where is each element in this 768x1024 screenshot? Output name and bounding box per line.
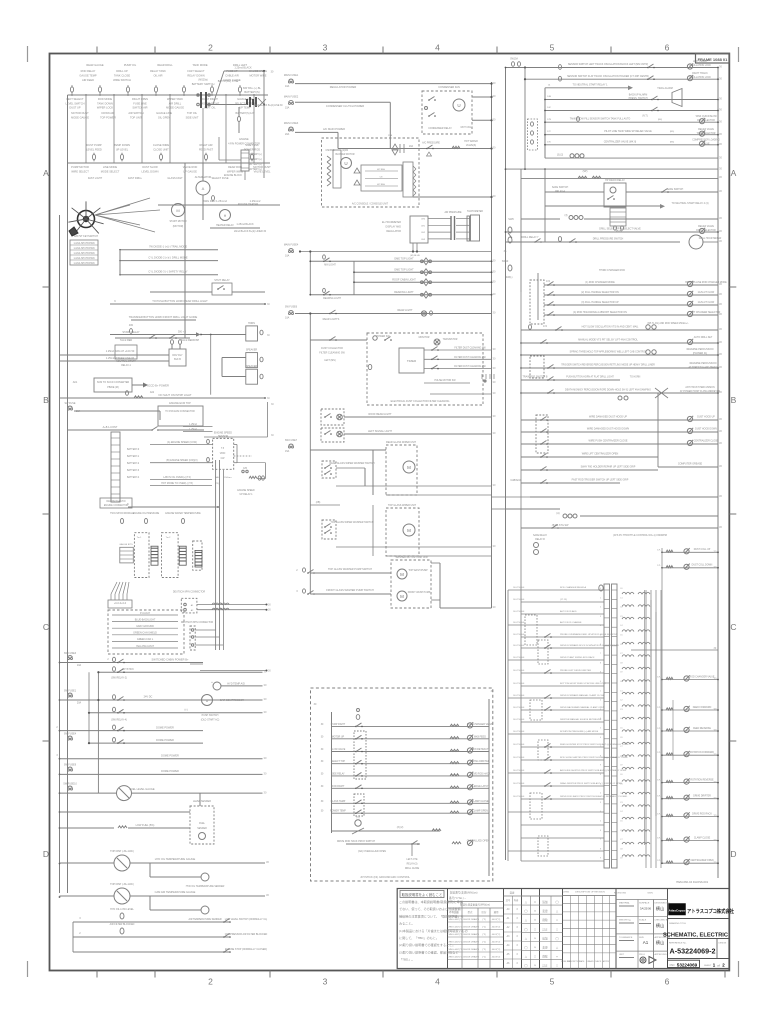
svg-text:MAIN FUSE3: MAIN FUSE3 (284, 122, 299, 125)
svg-text:M: M (176, 208, 179, 213)
svg-text:17C: 17C (547, 131, 551, 133)
svg-text:□: □ (534, 927, 536, 931)
svg-text:(OLD START AC): (OLD START AC) (201, 719, 220, 722)
svg-text:SLEDGE LATCH: SLEDGE LATCH (471, 785, 489, 788)
svg-text:PULSE MOTOR SW: PULSE MOTOR SW (434, 380, 456, 382)
svg-text:BATTERY-1: BATTERY-1 (127, 455, 140, 458)
svg-text:TOP UNIT: TOP UNIT (130, 115, 142, 119)
svg-text:SCALE: SCALE (639, 919, 647, 922)
svg-text:DEUTSCHE: DEUTSCHE (513, 731, 525, 733)
svg-text:LEFT (MN): LEFT (MN) (324, 360, 336, 362)
svg-text:3: 3 (323, 43, 328, 53)
svg-text:CHNG 4407(*2): CHNG 4407(*2) (447, 919, 463, 921)
svg-text:10A: 10A (77, 664, 82, 667)
svg-text:TANK QUICK/SLOW: TANK QUICK/SLOW (695, 115, 717, 118)
svg-text:(4) ROD HOLD/WAVE A ABSORT SEL: (4) ROD HOLD/WAVE A ABSORT SELECTOR ON (573, 311, 627, 314)
svg-text:DRAG DRIFTER PROX SWITCH BLAST: DRAG DRIFTER PROX SWITCH BLAST-(-) NORMA… (560, 782, 622, 785)
svg-text:HYD OIL TEMPERATURE SENDER: HYD OIL TEMPERATURE SENDER (186, 885, 225, 888)
svg-text:AIR FEED: AIR FEED (82, 78, 94, 82)
svg-text:4: 4 (435, 977, 440, 987)
svg-text:WIPER TANK: WIPER TANK (167, 97, 183, 101)
svg-text:(N6): (N6) (670, 141, 675, 143)
svg-text:SENSOR: SENSOR (218, 435, 228, 438)
svg-text:READING LIGHT: READING LIGHT (323, 297, 341, 300)
svg-text:TOP OIL: TOP OIL (187, 111, 198, 115)
svg-text:C: C (730, 622, 736, 632)
svg-text:CHNG: CHNG (563, 892, 570, 894)
svg-text:APPROVED: APPROVED (655, 953, 668, 956)
svg-text:BATTERY(S) 12V: BATTERY(S) 12V (236, 112, 255, 115)
svg-text:RIGHT AIR: RIGHT AIR (200, 143, 213, 147)
svg-text:5: 5 (550, 43, 555, 53)
svg-text:3: 3 (323, 977, 328, 987)
svg-text:4 P/N POWER CONNECTOR: 4 P/N POWER CONNECTOR (228, 143, 260, 146)
svg-text:REAR DRILL: REAR DRILL (157, 63, 173, 67)
svg-text:CHNG 4407(*2): CHNG 4407(*2) (447, 949, 463, 951)
svg-text:BATTERY(+): BATTERY(+) (248, 168, 261, 171)
svg-text:ENGINE WATER TEMPERATURE: ENGINE WATER TEMPERATURE (165, 512, 201, 515)
svg-text:POWER ROD: POWER ROD (244, 147, 260, 151)
svg-text:CYL DIODE-2 (+)(-) DRILL MODE: CYL DIODE-2 (+)(-) DRILL MODE (148, 256, 187, 260)
svg-text:TANK CLOSE: TANK CLOSE (114, 74, 131, 78)
svg-text:変更: 変更 (542, 946, 548, 950)
svg-text:REVERSE PERCUSSION: REVERSE PERCUSSION (687, 349, 714, 351)
svg-text:TRAVERSE SWITCH B: TRAVERSE SWITCH B (522, 376, 547, 379)
svg-text:CABLE AIR: CABLE AIR (225, 74, 239, 78)
svg-text:Tw-2: Tw-2 (166, 537, 172, 539)
svg-text:横山: 横山 (656, 939, 664, 946)
svg-text:MAIN FUSE2: MAIN FUSE2 (284, 95, 299, 98)
svg-text:DEUTSCHE: DEUTSCHE (513, 657, 525, 659)
svg-text:DRILL UP: DRILL UP (116, 69, 128, 73)
svg-text:10A: 10A (285, 85, 290, 88)
svg-text:Tw-1: Tw-1 (137, 537, 143, 539)
svg-text:SIZE: SIZE (639, 937, 644, 939)
svg-text:DME TOP LIGHT: DME TOP LIGHT (394, 258, 414, 261)
svg-text:RELAY-R: RELAY-R (535, 538, 545, 541)
svg-text:4407(*2): 4407(*2) (492, 934, 501, 936)
svg-text:6: 6 (665, 43, 670, 53)
svg-text:500 + 5: 500 + 5 (178, 331, 187, 334)
svg-text:TWO-SP/ON MODULE: TWO-SP/ON MODULE (110, 513, 134, 515)
svg-text:SWAY RIG HOLDER REPAIR UP LEFT: SWAY RIG HOLDER REPAIR UP LEFT SIDE GRIP (581, 466, 636, 469)
svg-text:×: × (534, 964, 536, 968)
svg-text:DM419 DRAWN: DM419 DRAWN (463, 941, 479, 944)
svg-text:TOP DISP (-30+110C): TOP DISP (-30+110C) (110, 883, 134, 886)
svg-text:AT 3NA: AT 3NA (377, 183, 385, 186)
svg-text:(SW RELAY-4): (SW RELAY-4) (111, 719, 127, 722)
svg-text:DEUTSCHE: DEUTSCHE (513, 599, 525, 601)
svg-text:53224069: 53224069 (677, 962, 698, 967)
svg-text:みること。: みること。 (399, 921, 414, 926)
svg-text:BOTTOM HOIST FEED UP AT RIG LI: BOTTOM HOIST FEED UP AT RIG LINE STOP (560, 682, 607, 685)
svg-text:P-CAN-H: P-CAN-H (140, 612, 150, 615)
svg-text:RELAY-4: RELAY-4 (555, 190, 565, 193)
svg-text:of: of (717, 963, 719, 967)
svg-text:◯: ◯ (524, 964, 528, 968)
svg-text:COMPRESSOR LOADING: COMPRESSOR LOADING (692, 139, 720, 142)
svg-text:OIL AIR: OIL AIR (154, 74, 163, 78)
svg-text:U: U (457, 103, 460, 108)
svg-text:+0-0-0+0-0: +0-0-0+0-0 (114, 602, 127, 605)
svg-text:10A: 10A (285, 255, 290, 258)
svg-text:DRIFTER MANUAL SLEEVE RETRIEVE: DRIFTER MANUAL SLEEVE RETRIEVER (560, 718, 602, 721)
svg-text:DRILL PRESSURE SWITCH: DRILL PRESSURE SWITCH (593, 238, 624, 241)
svg-text:SENSOR SWITCH LEFT TRACK OSCIL: SENSOR SWITCH LEFT TRACK OSCILLATION BLO… (568, 63, 648, 66)
svg-text:RELAY DOWN: RELAY DOWN (187, 74, 204, 78)
svg-text:SW9: SW9 (508, 218, 514, 221)
svg-text:削除: 削除 (542, 918, 548, 922)
svg-text:SW(L): SW(L) (506, 276, 513, 279)
svg-text:CABIN/AC: CABIN/AC (510, 479, 522, 482)
svg-text:PROBE LEFT DRIVE DRIFTER: PROBE LEFT DRIVE DRIFTER (560, 670, 591, 672)
svg-text:CAM AIR TEMPERATURE GAUGE: CAM AIR TEMPERATURE GAUGE (155, 890, 196, 894)
svg-text:4407(*2): 4407(*2) (492, 942, 501, 944)
svg-text:ENGINE SPEED: ENGINE SPEED (237, 490, 255, 492)
svg-text:1.25md: 1.25md (189, 429, 197, 431)
svg-text:(2)0M: (2)0M (342, 150, 348, 152)
svg-text:ITEM-660-04 DHOS6-001: ITEM-660-04 DHOS6-001 (676, 880, 709, 884)
svg-text:DEUTSCHE: DEUTSCHE (513, 587, 525, 589)
svg-text:READING LIGHT: READING LIGHT (394, 291, 414, 294)
svg-text:CHECKED BY: CHECKED BY (655, 920, 670, 922)
svg-text:ROD CHANGER RELAY-A: ROD CHANGER RELAY-A (560, 586, 587, 589)
svg-text:TO HORN: TO HORN (630, 377, 641, 379)
svg-text:製造仕様変更番号(MN)(os): 製造仕様変更番号(MN)(os) (460, 903, 490, 907)
svg-text:GAUGE TEMP: GAUGE TEMP (79, 74, 97, 78)
svg-text:TANK MODE: TANK MODE (192, 63, 207, 67)
svg-text:DEUTSCH 40-P/N: DEUTSCH 40-P/N (107, 501, 126, 503)
svg-text:SW FUSE3: SW FUSE3 (64, 652, 77, 655)
svg-text:DUST HOOD UP: DUST HOOD UP (697, 417, 715, 419)
svg-text:取扱説明書をよく読むこと: 取扱説明書をよく読むこと (402, 892, 443, 897)
svg-text:(M5 TL R1) AND ROD SPEED 250km: (M5 TL R1) AND ROD SPEED 250km+/- (647, 322, 689, 325)
svg-text:TO P4N ECM CONNECTOR: TO P4N ECM CONNECTOR (165, 411, 195, 413)
svg-text:FRONT WASH PUMP: FRONT WASH PUMP (408, 591, 431, 594)
svg-text:HOT SLOW OSCILLATION VTS IN AN: HOT SLOW OSCILLATION VTS IN AND CENT. MA… (582, 326, 639, 329)
svg-text:適用: 適用 (494, 910, 499, 914)
svg-text:FILTER DUST CLEANING 250: FILTER DUST CLEANING 250 (454, 356, 486, 359)
svg-text:+: + (211, 680, 213, 684)
svg-text:A: A (731, 168, 737, 178)
svg-text:BATTERY SWITCH: BATTERY SWITCH (192, 82, 215, 86)
svg-text:WASHER MOTOR TANK UNIT: WASHER MOTOR TANK UNIT (396, 556, 430, 559)
svg-text:SW FUSE4: SW FUSE4 (64, 733, 77, 736)
svg-text:追加: 追加 (542, 936, 548, 940)
svg-text:AWG RED 1.25mm2: AWG RED 1.25mm2 (203, 199, 227, 203)
svg-text:FUSE LINE: FUSE LINE (133, 101, 147, 105)
svg-text:MAIN FUSE4: MAIN FUSE4 (284, 244, 299, 247)
svg-text:DOME POWER: DOME POWER (156, 739, 174, 742)
svg-text:ENGINE BLOCK: ENGINE BLOCK (224, 174, 242, 177)
svg-text:RELIEF VALVE: RELIEF VALVE (698, 128, 714, 131)
svg-text:LEFT SIGNAL LIGHT: LEFT SIGNAL LIGHT (368, 430, 392, 433)
svg-text:PROJ: PROJ (639, 954, 645, 956)
svg-text:LEVEL SENDER: LEVEL SENDER (193, 800, 211, 803)
svg-text:15A: 15A (285, 106, 290, 109)
svg-text:×: × (556, 918, 558, 922)
svg-text:1.25md: 1.25md (189, 424, 197, 426)
svg-text:VALVE: VALVE (702, 143, 710, 146)
svg-text:HYD OIL LOW LEVEL: HYD OIL LOW LEVEL (110, 908, 134, 911)
svg-text:DUST UP: DUST UP (69, 106, 81, 110)
svg-text:FILTER CLEANING SW: FILTER CLEANING SW (319, 352, 345, 355)
svg-text:SW FUSE: SW FUSE (65, 402, 76, 405)
svg-text:PUSH SWITCH: PUSH SWITCH (202, 714, 219, 717)
svg-text:1.25md BLACK: 1.25md BLACK (236, 223, 254, 226)
svg-text:DM419 DRAWN: DM419 DRAWN (463, 948, 479, 951)
svg-text:RELIEF VALVE: RELIEF VALVE (698, 225, 714, 228)
svg-text:MOTOR DUST: MOTOR DUST (71, 111, 89, 115)
svg-text:に関して、「TBD」のもと。: に関して、「TBD」のもと。 (399, 935, 439, 940)
svg-text:4407(*2): 4407(*2) (492, 957, 501, 959)
svg-text:YELLOW-CAN H: YELLOW-CAN H (136, 645, 154, 648)
svg-text:TANK DOWN: TANK DOWN (97, 101, 113, 105)
svg-text:M: M (407, 528, 411, 533)
svg-text:B: B (43, 395, 49, 405)
svg-text:区分: 区分 (482, 910, 487, 914)
svg-text:(N.T): (N.T) (642, 116, 647, 118)
svg-text:FAST ROD TRIGGER SWITCH UP LEF: FAST ROD TRIGGER SWITCH UP LEFT SIDE GRI… (572, 479, 629, 482)
svg-text:SW FUSE1: SW FUSE1 (64, 690, 77, 693)
svg-text:TRANSISTOR: TRANSISTOR (443, 338, 458, 341)
svg-text:LEFT-OTE: LEFT-OTE (407, 859, 418, 861)
svg-text:17A: 17A (543, 325, 548, 328)
svg-text:DEUTSCHE: DEUTSCHE (513, 611, 525, 613)
svg-text:DRIVE PLANT SWING ROD RACK: DRIVE PLANT SWING ROD RACK (560, 656, 595, 659)
svg-text:DRILL RELAY-7: DRILL RELAY-7 (522, 236, 540, 239)
svg-text:COMPRESSOR AIR FILTER BLOCKED: COMPRESSOR AIR FILTER BLOCKED (225, 933, 268, 936)
svg-text:20md BLACK B+(2) LINE 30: 20md BLACK B+(2) LINE 30 (253, 104, 283, 107)
svg-text:LOW LEVEL SWITCH (NORMALLY CL): LOW LEVEL SWITCH (NORMALLY CL) (225, 918, 268, 921)
svg-text:DRILL SELECTOR 4+ SELECT VALVE: DRILL SELECTOR 4+ SELECT VALVE (599, 228, 641, 231)
svg-text:GUN A/T FLOW: GUN A/T FLOW (698, 291, 715, 294)
svg-text:SWITCH AIR: SWITCH AIR (132, 106, 147, 110)
svg-text:CLAMP CLOSE: CLAMP CLOSE (694, 836, 711, 839)
svg-text:RELAY TANK: RELAY TANK (150, 69, 166, 73)
svg-text:HP DRAIN RELAY: HP DRAIN RELAY (605, 179, 625, 182)
svg-text:1.25md AWG AT +10C 50: 1.25md AWG AT +10C 50 (106, 350, 135, 353)
svg-text:4407(*2): 4407(*2) (492, 927, 501, 929)
svg-text:(3) (2): (3) (2) (557, 155, 563, 157)
svg-text:DOME POWER: DOME POWER (156, 726, 174, 729)
svg-text:A+B 1-CONT: A+B 1-CONT (103, 426, 118, 429)
svg-text:(A) ENGINE SPEED (CCW): (A) ENGINE SPEED (CCW) (167, 441, 197, 444)
svg-text:(N4): (N4) (658, 119, 663, 121)
svg-text:DRILL SELECTOR: DRILL SELECTOR (696, 230, 716, 232)
svg-text:BAT/ST(B+) C./SE: BAT/ST(B+) C./SE (218, 80, 239, 83)
svg-text:DRIVE ROD HACK: DRIVE ROD HACK (470, 772, 491, 775)
svg-text:1-GN4-SHUTDOWN: 1-GN4-SHUTDOWN (73, 243, 94, 245)
svg-text:WEIGHT kg: WEIGHT kg (619, 920, 631, 922)
svg-text:TOP GLASS WASHER PUMP SWITCH: TOP GLASS WASHER PUMP SWITCH (328, 568, 372, 571)
svg-text:(NA) OVERALL/ED OPEN: (NA) OVERALL/ED OPEN (358, 850, 386, 853)
svg-text:DOME POWER: DOME POWER (161, 754, 179, 757)
svg-text:CLOSE UNIT: CLOSE UNIT (153, 147, 169, 151)
svg-text:SAFE SWITCH: SAFE SWITCH (552, 186, 569, 189)
svg-text:(SW RELAY-2): (SW RELAY-2) (111, 677, 127, 680)
svg-text:TOP POWER: TOP POWER (100, 115, 116, 119)
svg-text:ENGINE OIL PRESSURE: ENGINE OIL PRESSURE (133, 513, 160, 515)
svg-text:WIRE LIFT CENTRALIZER OPEN: WIRE LIFT CENTRALIZER OPEN (582, 453, 619, 456)
svg-text:U: U (344, 161, 347, 166)
svg-text:20A: 20A (77, 702, 82, 705)
svg-text:CHNG 4407(*2): CHNG 4407(*2) (447, 957, 463, 959)
svg-text:REGULATOR: REGULATOR (386, 230, 401, 233)
svg-text:BATTERY-0: BATTERY-0 (127, 448, 140, 451)
svg-text:DEUTSCH 8P/N CONNECTOR: DEUTSCH 8P/N CONNECTOR (181, 622, 214, 624)
svg-text:TACHOMETER: TACHOMETER (467, 210, 483, 213)
svg-text:FSN: FSN (670, 964, 675, 967)
svg-text:FAST LIGHT: FAST LIGHT (88, 177, 103, 180)
svg-text:×: × (534, 946, 536, 950)
svg-text:1-GN4-SHUTDOWN: 1-GN4-SHUTDOWN (73, 253, 94, 255)
svg-text:5: 5 (550, 977, 555, 987)
svg-text:WIRE SWITCH: WIRE SWITCH (113, 78, 131, 82)
svg-text:OVERALL/ED OPEN: OVERALL/ED OPEN (467, 840, 490, 843)
svg-text:DUST SLOW: DUST SLOW (142, 165, 158, 169)
svg-text:(B) ENGINE SPEED (CW)(X): (B) ENGINE SPEED (CW)(X) (166, 459, 197, 462)
svg-text:REAR GLASS WIPER WASHER SWITCH: REAR GLASS WIPER WASHER SWITCH (330, 462, 375, 465)
svg-text:(2B): (2B) (316, 501, 321, 504)
svg-text:ENGINE CONNECTOR: ENGINE CONNECTOR (104, 505, 129, 507)
svg-text:(2) FULL HANDLE SELECTOR ON: (2) FULL HANDLE SELECTOR ON (581, 291, 619, 294)
svg-text:CYL DIODE-3 (-) SAFETY RELAY: CYL DIODE-3 (-) SAFETY RELAY (148, 270, 188, 274)
svg-text:SENDER: SENDER (197, 828, 207, 830)
svg-text:ROD RELAY: ROD RELAY (81, 69, 96, 73)
svg-text:(1) ROD CHANGER MODE: (1) ROD CHANGER MODE (585, 281, 615, 284)
svg-text:WIRE SELECT: WIRE SELECT (71, 169, 89, 173)
svg-text:1-GN4-SHUTDOWN: 1-GN4-SHUTDOWN (73, 248, 94, 250)
svg-text:COMPUTER GREASE: COMPUTER GREASE (678, 463, 703, 466)
svg-text:15A: 15A (285, 450, 290, 453)
svg-text:ROD SLIDE SHIFTED PROX SWITCH: ROD SLIDE SHIFTED PROX SWITCH BLAST-(-) … (560, 756, 628, 759)
svg-text:CENTRALIZER OPEN: CENTRALIZER OPEN (690, 859, 713, 862)
svg-text:TOP GLASS WIPER UNIT: TOP GLASS WIPER UNIT (388, 504, 417, 507)
svg-text:DUST COLL UP: DUST COLL UP (694, 549, 711, 551)
svg-text:(3): (3) (565, 214, 568, 217)
svg-text:DATE: DATE (580, 960, 586, 963)
svg-text:MODE GAUGE: MODE GAUGE (166, 106, 184, 110)
svg-text:FILTER DUST CLEANING 250: FILTER DUST CLEANING 250 (454, 365, 486, 368)
svg-text:4: 4 (435, 43, 440, 53)
svg-text:17B: 17B (547, 119, 551, 121)
svg-text:DRILL GUIDE: DRILL GUIDE (405, 868, 420, 870)
svg-text:2: 2 (208, 43, 213, 53)
svg-text:GLASS FAST: GLASS FAST (167, 177, 183, 180)
svg-text:AIR PRESSURE: AIR PRESSURE (444, 211, 462, 214)
svg-text:PB/DE (M): PB/DE (M) (107, 386, 119, 389)
svg-text:ENGINE HEATER: ENGINE HEATER (238, 203, 258, 206)
svg-text:PUSH BUTTON HORN AT FLAT DRILL: PUSH BUTTON HORN AT FLAT DRILL LIGHT (566, 376, 614, 379)
svg-text:A/C MAIN POWER: A/C MAIN POWER (323, 127, 345, 131)
svg-text:A02: A02 (150, 391, 155, 394)
svg-text:PUMP OIL: PUMP OIL (124, 63, 137, 67)
svg-text:(*2): (*2) (482, 949, 486, 951)
svg-text:BATTERY(+): BATTERY(+) (248, 153, 261, 156)
svg-text:BAR COMPRESSOR: BAR COMPRESSOR (220, 699, 244, 702)
svg-text:×: × (534, 936, 536, 940)
svg-text:CHNG 4407(*2): CHNG 4407(*2) (447, 942, 463, 944)
svg-text:LEVEL DOWN: LEVEL DOWN (142, 169, 159, 173)
svg-text:DEUTSCHE: DEUTSCHE (513, 770, 525, 772)
svg-text:4407(*2): 4407(*2) (492, 919, 501, 921)
svg-text:DM419 DRAWN: DM419 DRAWN (463, 956, 479, 959)
svg-text:訂正: 訂正 (542, 927, 548, 931)
svg-text:ELECTRICAL DUST COLLECTOR FILT: ELECTRICAL DUST COLLECTOR FILTER CLEANIN… (391, 400, 450, 403)
svg-text:WIRE DAMAGED DUST HOOD UP: WIRE DAMAGED DUST HOOD UP (589, 416, 627, 419)
svg-text:□: □ (534, 900, 536, 904)
svg-text:PUMP RIGHT: PUMP RIGHT (331, 724, 346, 726)
svg-text:20A: 20A (409, 145, 414, 148)
svg-text:DEUTSCHE: DEUTSCHE (513, 622, 525, 624)
svg-text:横山: 横山 (656, 922, 664, 929)
svg-text:UP RELAY-1: UP RELAY-1 (240, 493, 254, 496)
svg-text:BATTERY-2: BATTERY-2 (127, 462, 140, 465)
svg-text:DRIVE ROD HACK PROX SWITCH: DRIVE ROD HACK PROX SWITCH (337, 840, 375, 843)
svg-text:(HANSER 41): (HANSER 41) (693, 352, 708, 355)
svg-text:(A): (A) (556, 512, 559, 515)
svg-text:MODE GAUGE: MODE GAUGE (71, 115, 89, 119)
svg-text:CLOSE WIRE: CLOSE WIRE (153, 143, 170, 147)
svg-text:FEED FAST: FEED FAST (199, 147, 214, 151)
svg-text:1-GN4-SHUTDOWN: 1-GN4-SHUTDOWN (73, 263, 94, 265)
svg-text:PUMP MOTOR: PUMP MOTOR (71, 165, 89, 169)
svg-text:BLOWER MOTOR: BLOWER MOTOR (335, 154, 354, 156)
svg-text:DRIVE ROD RACK: DRIVE ROD RACK (692, 812, 712, 815)
svg-text:CENTRALIZER VALVE (MK II): CENTRALIZER VALVE (MK II) (604, 140, 637, 143)
svg-text:(ATS PC THROTTLE CONTROL NO+1): (ATS PC THROTTLE CONTROL NO+1) 1500RPM (613, 534, 667, 537)
svg-text:THIRD CHANGER ROD: THIRD CHANGER ROD (599, 269, 625, 272)
svg-text:訂正: 訂正 (542, 964, 548, 968)
svg-text:OSCILLATION LOCK: OSCILLATION LOCK (689, 76, 711, 79)
svg-text:TO NEUTRAL START RELAY 1: TO NEUTRAL START RELAY 1 (572, 84, 608, 87)
svg-text:AIR SWITCH: AIR SWITCH (128, 111, 143, 115)
svg-text:DM419 DRAWN: DM419 DRAWN (463, 926, 479, 929)
svg-text:D: D (43, 849, 49, 859)
svg-text:REAR LIGHT: REAR LIGHT (397, 309, 412, 312)
svg-text:SPEAKER: SPEAKER (246, 365, 258, 368)
svg-text:SCHEMATIC, ELECTRIC: SCHEMATIC, ELECTRIC (663, 933, 728, 939)
svg-text:AUTO DRILL SET: AUTO DRILL SET (694, 336, 713, 339)
svg-text:REGULATOR POWER: REGULATOR POWER (330, 85, 357, 89)
svg-text:SHUT RELAY: SHUT RELAY (214, 279, 230, 282)
svg-text:WIPER LOCK: WIPER LOCK (97, 106, 114, 110)
svg-text:(3) FULL HANDLE SELECTOR UP: (3) FULL HANDLE SELECTOR UP (581, 301, 619, 304)
svg-text:SW FUSE10: SW FUSE10 (63, 783, 77, 786)
svg-text:MK8 FEED: MK8 FEED (474, 735, 486, 738)
svg-text:BLK B: BLK B (174, 358, 181, 361)
svg-text:AIR TEMPERATURE SENDER: AIR TEMPERATURE SENDER (188, 918, 221, 921)
svg-text:AT THROTTLE AND HEAVY: AT THROTTLE AND HEAVY (688, 366, 718, 369)
svg-text:CONDENSER CLUTCH POWER: CONDENSER CLUTCH POWER (326, 104, 364, 108)
svg-text:NO SHUT ON INTRP LIGHT: NO SHUT ON INTRP LIGHT (158, 393, 191, 397)
svg-text:ROTATION REVERSE: ROTATION REVERSE (690, 778, 714, 781)
svg-text:A: A (202, 186, 205, 191)
svg-text:7Amd REDDISH: 7Amd REDDISH (181, 339, 200, 342)
svg-text:ROD RIGHT: ROD RIGHT (332, 786, 345, 788)
svg-text:HEATER RELAY: HEATER RELAY (216, 224, 234, 227)
svg-text:MAIN FUSE1: MAIN FUSE1 (284, 74, 299, 77)
svg-text:REAR GLASS WIPER UNIT: REAR GLASS WIPER UNIT (386, 441, 417, 444)
svg-text:SWITCHED CABIN POWER B+: SWITCHED CABIN POWER B+ (152, 658, 189, 662)
svg-text:GREEN-CAN L: GREEN-CAN L (137, 638, 154, 641)
svg-text:AUTO ROD ADD: AUTO ROD ADD (560, 610, 577, 613)
svg-text:ENGINE ECM TOP: ENGINE ECM TOP (169, 402, 191, 405)
svg-text:DEUTSCHE: DEUTSCHE (513, 744, 525, 746)
svg-text:(M) BLUE: (M) BLUE (410, 255, 420, 257)
svg-text:DEUTSCHE: DEUTSCHE (513, 719, 525, 721)
